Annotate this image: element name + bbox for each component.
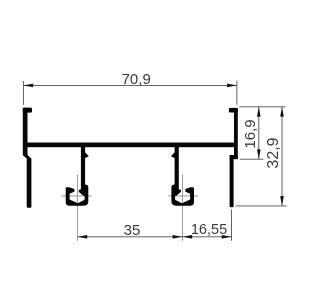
right wall upper section bbox=[234, 108, 238, 159]
arrow 32,9 top bbox=[280, 107, 284, 117]
extension line bottom right (32,9) bbox=[236, 205, 287, 207]
extension line top right (16,9 / 32,9) bbox=[239, 106, 285, 108]
arrow 16,9 top bbox=[257, 107, 261, 117]
arrow 70,9 right bbox=[227, 84, 237, 88]
svg-text:16,55: 16,55 bbox=[191, 222, 227, 238]
left wall upper section bbox=[23, 108, 28, 156]
T-hook 2 with screw boss C2 (mirror of T1) bbox=[171, 147, 194, 206]
extruded aluminium profile cross-section bbox=[62, 175, 199, 241]
svg-text:70,9: 70,9 bbox=[122, 71, 151, 88]
left wall jog bbox=[23, 155, 32, 159]
right wall step connector bbox=[230, 155, 238, 159]
dimension extension + centre lines bbox=[23, 81, 286, 241]
arrow 16,55 left bbox=[182, 235, 192, 239]
arrow 32,9 bottom bbox=[280, 196, 284, 206]
extension line left (70,9) bbox=[22, 81, 24, 105]
arrow 35 left bbox=[77, 235, 87, 239]
svg-text:16,9: 16,9 bbox=[242, 119, 259, 148]
svg-text:35: 35 bbox=[124, 222, 141, 239]
right wall lower section bbox=[230, 155, 234, 207]
left wall top lip bbox=[23, 108, 32, 113]
extension line right (70,9) bbox=[236, 81, 238, 105]
dimension line 70,9 bbox=[23, 84, 237, 86]
T-hook 1 with screw boss C1 bbox=[66, 147, 89, 206]
dimension line 35 / 16,55 bbox=[77, 236, 231, 238]
extension line mid right (16,9) bbox=[240, 158, 264, 160]
arrowheads bbox=[23, 84, 283, 239]
extension line right wall bottom (16,55) bbox=[231, 210, 233, 241]
dimension line 16,9 bbox=[258, 107, 260, 159]
arrow 35 right bbox=[173, 235, 183, 239]
centre line C2 vertical bbox=[181, 175, 183, 241]
centre line C1 horizontal bbox=[62, 195, 92, 197]
dimension line 32,9 bbox=[281, 107, 283, 206]
centre line C2 horizontal bbox=[168, 195, 198, 197]
svg-text:32,9: 32,9 bbox=[265, 137, 282, 168]
right wall top lip bbox=[229, 108, 238, 113]
arrow 16,9 bottom bbox=[257, 149, 261, 159]
arrow 16,55 right bbox=[222, 235, 232, 239]
centre line C1 vertical bbox=[76, 175, 78, 241]
left wall lower section bbox=[27, 158, 32, 208]
arrow 70,9 left bbox=[23, 84, 33, 88]
web (top horizontal wall) bbox=[23, 143, 238, 148]
